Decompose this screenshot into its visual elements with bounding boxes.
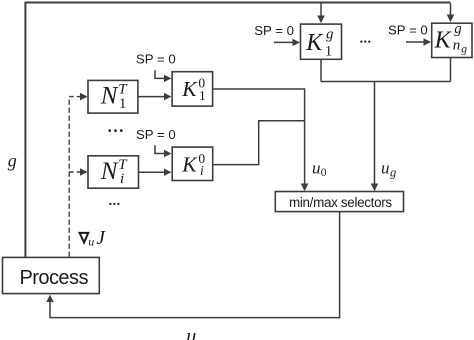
wire min/max output down, left and up into Process (u) [50,212,340,318]
wire down into Kng [450,3,452,21]
svg-text:K: K [181,152,198,176]
svg-text:g: g [8,151,17,171]
wire branch down into K1g [320,3,322,22]
label grad_u J (nabla drawn as path) [80,228,107,249]
label K1_0 [181,76,206,103]
svg-text:1: 1 [199,88,206,103]
svg-text:g: g [454,21,462,37]
wire Ki_0 output joining u_0 line [213,121,305,165]
wire joining Kg outputs [321,81,451,83]
svg-text:Process: Process [20,267,89,289]
svg-text:u: u [381,158,390,177]
svg-text:n: n [453,38,461,54]
label dots between N blocks [108,129,122,132]
label N1T [100,82,128,112]
svg-text:1: 1 [119,96,127,112]
wire u_g down into min/max selectors [374,82,376,190]
wire N1T to K1_0 [138,96,170,98]
svg-text:i: i [200,163,204,178]
wire dashed arrow into NiT [69,171,86,173]
svg-text:g: g [461,43,467,55]
wire SP elbow into Ki_0 [155,145,170,153]
svg-text:K: K [181,77,198,101]
svg-text:u: u [186,325,196,340]
label dots between Kg blocks [360,40,370,42]
block NiT [88,156,139,188]
wire SP arrow into K1g [274,41,298,43]
label u_g [381,158,396,179]
svg-text:u: u [312,158,321,177]
svg-text:i: i [120,171,124,187]
wire NiT to Ki_0 [139,171,170,173]
block K1_0 [172,72,213,106]
wire dashed gradient line from Process top [68,97,70,257]
svg-text:K: K [434,28,453,54]
block Ki_0 [172,147,213,180]
svg-text:K: K [305,30,324,56]
label K1g [305,26,334,59]
svg-text:J: J [96,228,106,249]
block K1g [301,24,342,59]
svg-text:SP = 0: SP = 0 [136,51,176,66]
svg-text:0: 0 [321,166,327,179]
wire dashed arrow into N1T [69,96,86,98]
svg-text:SP = 0: SP = 0 [254,23,294,38]
svg-text:1: 1 [325,44,333,60]
svg-text:min/max selectors: min/max selectors [289,195,392,210]
wire SP elbow into K1_0 [155,70,170,78]
wire SP arrow into Kng [406,41,429,43]
svg-text:N: N [100,158,119,185]
svg-text:g: g [390,165,396,179]
label NiT [100,157,128,187]
wire g from Process top up and across the top [25,3,450,258]
block Process [3,257,100,293]
label Ki_0 [181,151,205,178]
block Kng [432,23,472,57]
block N1T [88,80,138,113]
svg-text:SP = 0: SP = 0 [388,23,428,38]
block min/max selectors [275,192,403,212]
label u_0 [312,158,327,179]
svg-text:g: g [326,26,334,42]
svg-text:SP = 0: SP = 0 [136,127,176,142]
svg-text:u: u [88,235,94,249]
label Kng [434,21,468,55]
wire K1g bottom down [320,59,322,81]
svg-text:N: N [100,83,119,110]
wire K1_0 output down to min/max (u_0) [213,89,305,190]
label dots below NiT [109,203,119,205]
wire Kng bottom down [450,58,452,82]
